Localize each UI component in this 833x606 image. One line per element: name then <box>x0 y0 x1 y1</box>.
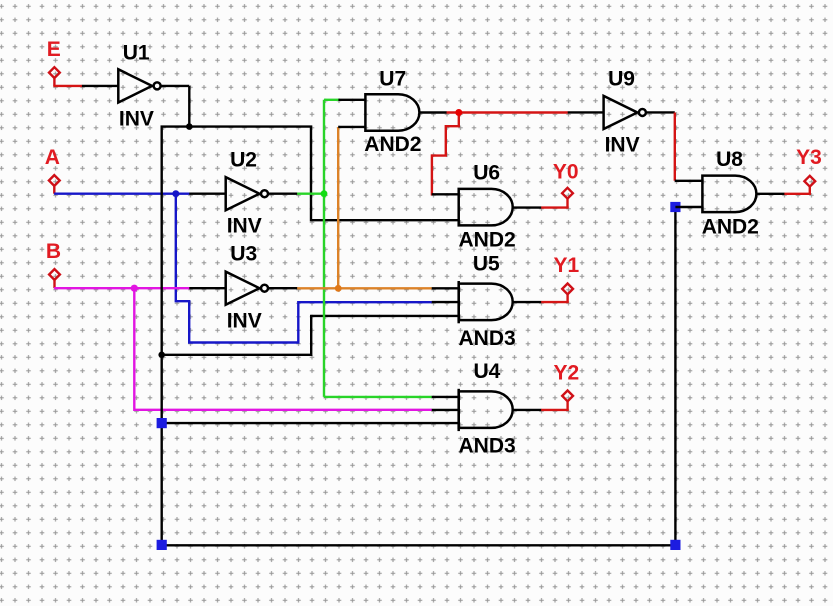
wire Y1 red <box>541 294 567 302</box>
wire orange vertical to U7 lower input <box>337 127 339 288</box>
svg-text:INV: INV <box>605 134 640 157</box>
wire B branch magenta to U4 <box>134 288 432 410</box>
svg-text:U7: U7 <box>379 68 406 91</box>
svg-text:U1: U1 <box>123 41 150 64</box>
svg-text:Y2: Y2 <box>554 362 580 385</box>
wire green vertical <box>323 100 325 397</box>
wire green to U7 top input <box>324 99 340 101</box>
wire black stub U7 lower input <box>338 126 365 128</box>
wire U2 output green <box>297 192 324 194</box>
node blue square bus right <box>670 540 680 550</box>
svg-text:INV: INV <box>227 309 262 332</box>
wire Y2 red <box>541 401 567 410</box>
inverter U1 <box>82 69 189 102</box>
wire U9 output red down <box>674 112 676 180</box>
wire Y0 red <box>541 199 567 208</box>
AND gate U5 <box>432 281 542 323</box>
wire Y3 red <box>784 187 809 194</box>
svg-text:AND2: AND2 <box>364 133 421 156</box>
wire red staircase to U6 top input <box>432 113 459 195</box>
junction B magenta <box>131 285 138 292</box>
svg-text:U2: U2 <box>230 149 257 172</box>
inverter U9 <box>568 96 675 129</box>
wire black stub U8 top input <box>675 180 703 182</box>
wire U7 output red to U9 <box>447 111 568 113</box>
svg-text:Y0: Y0 <box>553 160 579 183</box>
svg-text:U6: U6 <box>473 162 500 185</box>
svg-text:Y1: Y1 <box>554 254 580 277</box>
svg-text:U3: U3 <box>230 243 257 266</box>
port Y1 <box>562 284 573 295</box>
port A <box>49 175 60 194</box>
junction orange <box>335 285 342 292</box>
wire branch to U5 lower input <box>162 316 432 355</box>
svg-text:U8: U8 <box>716 148 743 171</box>
junction A blue <box>172 190 179 197</box>
node blue square U8 input <box>670 202 680 212</box>
wire E red <box>53 85 82 87</box>
AND gate U4 <box>432 389 542 431</box>
port Y3 <box>804 176 815 187</box>
port B <box>49 269 60 288</box>
wire U1 net right to U6 lower input <box>189 127 432 221</box>
inverter U3 <box>189 272 297 305</box>
wire A blue <box>54 192 190 194</box>
inverter U2 <box>189 177 297 210</box>
svg-text:E: E <box>47 38 61 61</box>
wire green to U4 top input <box>324 396 432 398</box>
wire branch to U4 lower input <box>162 422 432 424</box>
svg-text:AND3: AND3 <box>459 327 516 350</box>
svg-text:Y3: Y3 <box>796 146 822 169</box>
svg-text:INV: INV <box>227 215 262 238</box>
AND gate U8 <box>702 176 784 213</box>
AND gate U7 <box>338 94 446 131</box>
junction U1 out <box>186 123 193 130</box>
wire bottom bus <box>162 207 676 545</box>
wire B magenta <box>54 287 190 289</box>
svg-text:U9: U9 <box>608 67 635 90</box>
junction on vertical <box>158 352 165 359</box>
port Y0 <box>562 188 573 199</box>
wire A branch blue staircase to U5 <box>176 194 432 343</box>
node blue square bus left <box>157 540 167 550</box>
wire U1 net left + long vertical <box>162 127 190 545</box>
junction green <box>321 190 328 197</box>
junction red <box>455 109 462 116</box>
svg-text:U4: U4 <box>474 360 501 383</box>
svg-text:B: B <box>46 240 61 263</box>
AND gate U6 <box>432 189 542 226</box>
svg-text:AND3: AND3 <box>459 435 516 458</box>
port E <box>49 67 60 86</box>
svg-text:AND2: AND2 <box>459 228 516 251</box>
port Y2 <box>562 391 573 402</box>
wire U1 output down <box>188 86 190 127</box>
wire U3 output orange to U5 top input <box>297 287 432 289</box>
svg-text:A: A <box>45 146 60 169</box>
svg-text:AND2: AND2 <box>702 215 759 238</box>
svg-text:U5: U5 <box>473 253 500 276</box>
node blue square U4 branch <box>157 418 167 428</box>
wire black stub U8 bottom input <box>675 206 702 208</box>
svg-text:INV: INV <box>119 107 154 130</box>
